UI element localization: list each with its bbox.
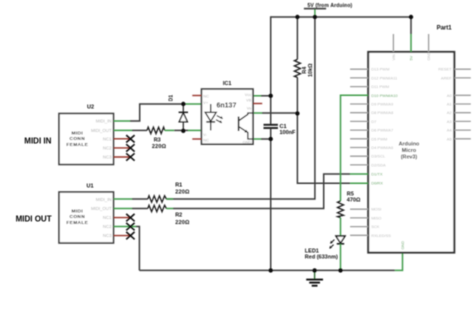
svg-text:GND: GND — [243, 139, 252, 144]
U2 NC1 pin stub with X — [114, 135, 135, 142]
IC1 internal phototransistor — [239, 113, 253, 139]
wire 5V left drop to IC1 Vcc / C1 — [270, 16, 272, 124]
wire IC1 Vcc to 5V — [253, 95, 271, 97]
wire Arduino GND pin to ground rail (green) — [395, 253, 403, 271]
svg-text:MIDI_OUT: MIDI_OUT — [91, 206, 112, 211]
svg-text:A4: A4 — [447, 128, 453, 133]
wire Arduino D10 to R5 (green) — [341, 95, 369, 201]
svg-text:MIDI OUT: MIDI OUT — [16, 214, 52, 223]
svg-text:Red (633nm): Red (633nm) — [305, 255, 338, 261]
svg-text:GND: GND — [401, 241, 405, 250]
svg-text:Vo: Vo — [247, 106, 252, 111]
svg-text:5V (from Arduino): 5V (from Arduino) — [308, 3, 353, 9]
U2 NC2 pin stub with X — [114, 144, 135, 151]
svg-text:R2: R2 — [175, 213, 182, 219]
junction node dots — [181, 15, 413, 273]
svg-text:100nF: 100nF — [280, 130, 297, 136]
svg-text:6n137: 6n137 — [217, 102, 237, 109]
svg-text:RESET: RESET — [438, 67, 452, 72]
svg-text:220Ω: 220Ω — [175, 220, 190, 226]
diode D1 (vertical, across opto LED) — [169, 95, 189, 131]
svg-text:(Rev3): (Rev3) — [401, 154, 418, 160]
wire U1 NC2 to ground rail — [114, 227, 140, 271]
wire ground rail — [139, 269, 395, 271]
svg-text:CONN: CONN — [70, 136, 86, 142]
svg-text:A0: A0 — [447, 93, 453, 98]
svg-text:NC1: NC1 — [103, 215, 112, 220]
IC1 right VB pin stub (red) — [253, 103, 262, 105]
svg-text:IC1: IC1 — [223, 81, 232, 87]
U1 NC1 pin stub with X — [114, 214, 135, 221]
resistor R3 220 (horizontal) — [147, 127, 167, 150]
Arduino D0/RX green pin stub — [350, 182, 368, 184]
svg-text:V+: V+ — [203, 100, 209, 105]
svg-text:MIDI_OUT: MIDI_OUT — [91, 128, 112, 133]
svg-text:D5 PWM: D5 PWM — [371, 136, 387, 141]
svg-text:D6 PWM/A7: D6 PWM/A7 — [371, 128, 394, 133]
wire U1 MIDI_IN pin to R1 — [114, 198, 148, 200]
wire LED1 cathode to ground rail (green) — [340, 244, 342, 270]
svg-text:MISO: MISO — [371, 215, 381, 220]
svg-text:NC3: NC3 — [103, 155, 112, 160]
svg-text:Arduino: Arduino — [399, 142, 420, 148]
Arduino left pin stubs (gray) — [350, 69, 368, 235]
svg-text:R1: R1 — [175, 183, 182, 189]
resistor R5 470 (vertical) — [338, 191, 361, 217]
svg-text:NC1: NC1 — [103, 137, 112, 142]
svg-text:MIDI IN: MIDI IN — [24, 137, 51, 146]
svg-text:RXLED/SS: RXLED/SS — [371, 233, 391, 238]
svg-text:D8 PWM/A8: D8 PWM/A8 — [371, 110, 394, 115]
capacitor C1 100nF — [264, 124, 297, 136]
svg-text:Vcc: Vcc — [245, 92, 252, 97]
svg-text:D2/SDA: D2/SDA — [371, 162, 386, 167]
svg-text:MIDI_IN: MIDI_IN — [96, 119, 112, 124]
svg-text:Micro: Micro — [402, 148, 417, 154]
svg-text:MOSI: MOSI — [371, 207, 381, 212]
optocoupler IC1 6n137 box — [202, 81, 254, 144]
svg-text:D0/RX: D0/RX — [371, 181, 383, 186]
svg-text:220Ω: 220Ω — [152, 144, 167, 150]
svg-text:D4 PWM/A6: D4 PWM/A6 — [371, 145, 394, 150]
svg-text:10kΩ: 10kΩ — [308, 63, 314, 77]
label MIDI OUT — [16, 214, 52, 223]
svg-text:R5: R5 — [347, 191, 354, 197]
svg-text:C1: C1 — [280, 124, 287, 130]
label MIDI IN — [24, 137, 51, 146]
svg-text:5V: 5V — [410, 55, 414, 60]
Arduino D10 green pin stub — [350, 94, 368, 96]
svg-text:NC2: NC2 — [103, 146, 112, 151]
U2 NC3 pin stub with X — [114, 153, 135, 160]
svg-text:U1: U1 — [87, 183, 94, 189]
ground symbol — [306, 270, 323, 285]
svg-text:NC3: NC3 — [103, 233, 112, 238]
svg-text:A3: A3 — [447, 119, 453, 124]
svg-text:NC: NC — [203, 137, 209, 142]
wire R3 to D1 / IC1 cathode — [165, 129, 202, 131]
svg-text:MIDI: MIDI — [72, 130, 84, 136]
svg-text:D9 PWM/A9: D9 PWM/A9 — [371, 102, 394, 107]
Arduino top pin labels (rotated) — [392, 52, 431, 61]
svg-text:220Ω: 220Ω — [175, 190, 190, 196]
svg-text:FEMALE: FEMALE — [66, 220, 88, 226]
wire 5V drop to R1 (x=314.9) — [166, 17, 315, 199]
svg-text:GND: GND — [427, 52, 431, 61]
wire TX net: Arduino D1/TX to R2 — [173, 174, 350, 209]
Arduino D1/TX green pin stub — [350, 173, 368, 175]
wire U1 MIDI_OUT pin to R2 — [114, 208, 148, 210]
wire RX net: IC1 Vo pull-up node down to Arduino D0/RX — [297, 113, 350, 183]
svg-text:MIDI: MIDI — [72, 208, 84, 214]
wire U2 MIDI_IN pin up and to IC1 anode node — [114, 104, 202, 121]
wire U2 MIDI_OUT pin to R3 — [114, 129, 148, 131]
svg-text:AREF: AREF — [441, 75, 452, 80]
wire IC1 Vo to R4 bottom — [253, 112, 297, 114]
svg-text:D13 PWM: D13 PWM — [371, 67, 389, 72]
svg-text:VB: VB — [246, 98, 252, 103]
connector U2 MIDI IN box — [59, 105, 114, 165]
svg-text:CONN: CONN — [70, 214, 86, 220]
resistor R2 220 (horizontal) — [148, 205, 190, 226]
svg-text:U2: U2 — [87, 105, 94, 111]
svg-text:D11 PWM: D11 PWM — [371, 84, 389, 89]
svg-text:SCK: SCK — [371, 224, 380, 229]
svg-text:NC: NC — [203, 93, 209, 98]
svg-text:Part1: Part1 — [437, 26, 453, 32]
resistor R1 220 (horizontal) — [148, 183, 190, 203]
svg-text:NC2: NC2 — [103, 224, 112, 229]
Arduino Micro Part1 box — [368, 26, 454, 253]
U1 NC2 X mark — [126, 223, 134, 230]
LED LED1 Red (633nm) — [305, 236, 345, 261]
connector U1 MIDI OUT box — [59, 183, 114, 243]
svg-text:A1: A1 — [447, 102, 453, 107]
power flag 5V (from Arduino) — [304, 3, 353, 17]
svg-text:D12 PWM/A11: D12 PWM/A11 — [371, 75, 398, 80]
wire 5V rail — [271, 16, 411, 18]
resistor R4 10k (vertical) with leads — [294, 17, 313, 113]
svg-text:D7: D7 — [371, 119, 377, 124]
IC1 internal LED — [205, 104, 223, 130]
svg-text:D1: D1 — [169, 95, 175, 102]
wire IC1 GND to ground drop — [253, 138, 271, 140]
wire 5V rail to Arduino 5V pin — [410, 17, 412, 34]
Arduino bottom GND pin label (rotated) — [401, 241, 405, 250]
svg-text:VIN: VIN — [392, 54, 396, 61]
svg-text:D1/TX: D1/TX — [371, 172, 383, 177]
svg-text:A5: A5 — [447, 136, 453, 141]
Arduino pin labels right — [438, 67, 452, 142]
Arduino pin labels left — [371, 67, 398, 238]
svg-text:D3/SCL: D3/SCL — [371, 154, 386, 159]
wire R5 to LED1 (green) — [340, 218, 342, 236]
svg-text:MIDI_IN: MIDI_IN — [96, 197, 112, 202]
svg-text:D10 PWM/A10: D10 PWM/A10 — [371, 93, 398, 98]
svg-text:R3: R3 — [154, 138, 161, 144]
U1 NC3 pin stub with X — [114, 232, 135, 239]
svg-text:FEMALE: FEMALE — [66, 142, 88, 148]
svg-text:LED1: LED1 — [305, 248, 319, 254]
svg-text:A2: A2 — [447, 110, 453, 115]
IC1 left NC pin stubs (red) — [192, 96, 201, 140]
svg-text:470Ω: 470Ω — [347, 198, 361, 204]
Arduino top pin stubs — [393, 34, 428, 52]
wire C1 bottom to ground rail — [270, 129, 272, 271]
Arduino right pin stubs (gray) — [454, 69, 471, 139]
